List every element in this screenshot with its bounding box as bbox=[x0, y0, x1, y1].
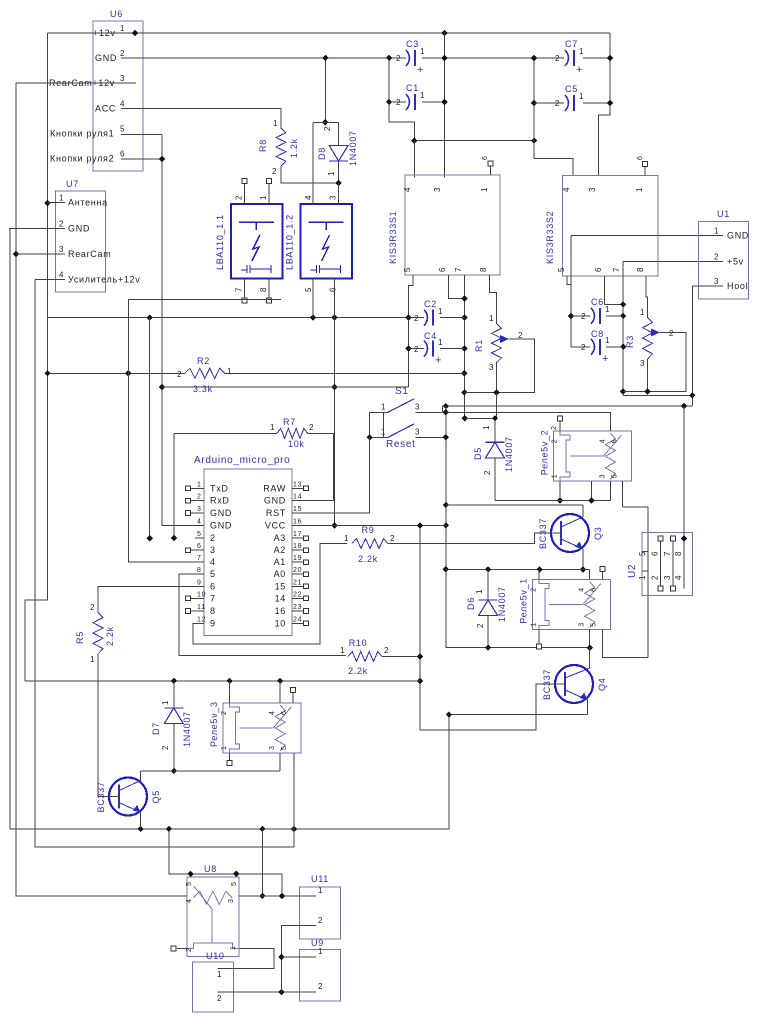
svg-text:10: 10 bbox=[197, 591, 206, 598]
svg-text:2: 2 bbox=[197, 494, 202, 501]
svg-text:R8: R8 bbox=[258, 139, 268, 152]
svg-text:3: 3 bbox=[579, 622, 586, 627]
svg-text:2.2k: 2.2k bbox=[348, 666, 368, 676]
svg-text:2: 2 bbox=[669, 329, 674, 338]
svg-text:7: 7 bbox=[234, 287, 243, 292]
svg-text:2: 2 bbox=[414, 314, 419, 323]
svg-text:4: 4 bbox=[599, 439, 606, 444]
svg-text:1: 1 bbox=[420, 91, 425, 100]
svg-text:5: 5 bbox=[403, 267, 412, 272]
svg-text:2: 2 bbox=[210, 533, 216, 543]
svg-text:3: 3 bbox=[415, 427, 420, 436]
svg-text:Q4: Q4 bbox=[597, 678, 607, 691]
svg-text:C3: C3 bbox=[406, 39, 419, 49]
svg-text:3: 3 bbox=[228, 898, 235, 903]
svg-text:D8: D8 bbox=[317, 147, 327, 160]
svg-text:6: 6 bbox=[120, 150, 125, 159]
svg-text:1: 1 bbox=[635, 187, 644, 192]
svg-text:11: 11 bbox=[197, 604, 206, 611]
svg-text:1: 1 bbox=[475, 589, 484, 594]
svg-text:2: 2 bbox=[651, 575, 660, 580]
svg-text:1: 1 bbox=[259, 195, 268, 200]
svg-text:C8: C8 bbox=[591, 329, 604, 339]
svg-text:4: 4 bbox=[304, 195, 313, 200]
svg-text:1: 1 bbox=[340, 646, 345, 655]
svg-text:9: 9 bbox=[197, 579, 202, 586]
svg-text:R1: R1 bbox=[474, 339, 484, 352]
svg-text:2: 2 bbox=[323, 126, 332, 131]
svg-text:6: 6 bbox=[637, 155, 644, 160]
svg-text:3: 3 bbox=[59, 245, 64, 254]
svg-text:2: 2 bbox=[581, 312, 586, 321]
svg-text:3: 3 bbox=[433, 187, 442, 192]
svg-text:6: 6 bbox=[591, 587, 598, 592]
svg-text:20: 20 bbox=[293, 567, 302, 574]
svg-text:2: 2 bbox=[555, 54, 560, 63]
svg-text:1: 1 bbox=[90, 655, 95, 664]
svg-text:3: 3 bbox=[588, 187, 597, 192]
svg-text:7: 7 bbox=[210, 593, 216, 603]
svg-text:1: 1 bbox=[480, 187, 489, 192]
svg-text:6: 6 bbox=[210, 581, 216, 591]
svg-text:ACC: ACC bbox=[95, 104, 116, 114]
svg-text:2: 2 bbox=[551, 439, 558, 444]
svg-text:3: 3 bbox=[489, 363, 494, 372]
svg-text:C4: C4 bbox=[424, 331, 437, 341]
svg-text:6: 6 bbox=[482, 155, 489, 160]
svg-text:1: 1 bbox=[327, 171, 336, 176]
svg-text:Q3: Q3 bbox=[593, 527, 603, 540]
svg-text:5: 5 bbox=[231, 881, 238, 886]
svg-text:2: 2 bbox=[318, 916, 323, 925]
svg-text:1: 1 bbox=[605, 305, 610, 314]
svg-text:+: + bbox=[435, 355, 442, 367]
svg-text:1N4007: 1N4007 bbox=[182, 711, 192, 747]
svg-text:2.2k: 2.2k bbox=[358, 554, 378, 564]
svg-text:Реле5v_3: Реле5v_3 bbox=[209, 701, 219, 747]
svg-text:4: 4 bbox=[210, 557, 216, 567]
svg-text:15: 15 bbox=[293, 506, 302, 513]
svg-text:2: 2 bbox=[476, 623, 485, 628]
svg-text:U2: U2 bbox=[627, 564, 638, 578]
svg-text:KIS3R33S2: KIS3R33S2 bbox=[545, 211, 555, 264]
svg-text:3: 3 bbox=[120, 74, 125, 83]
svg-text:U6: U6 bbox=[110, 9, 123, 19]
svg-text:2: 2 bbox=[396, 54, 401, 63]
svg-text:1: 1 bbox=[438, 307, 443, 316]
svg-text:D6: D6 bbox=[466, 597, 476, 610]
svg-text:21: 21 bbox=[293, 579, 302, 586]
svg-text:1: 1 bbox=[161, 700, 170, 705]
svg-text:6: 6 bbox=[611, 439, 618, 444]
svg-text:2: 2 bbox=[120, 49, 125, 58]
svg-text:U8: U8 bbox=[204, 864, 217, 874]
svg-text:1: 1 bbox=[318, 886, 323, 895]
svg-text:S1: S1 bbox=[395, 386, 409, 397]
svg-text:5: 5 bbox=[591, 622, 598, 627]
svg-text:R9: R9 bbox=[362, 525, 375, 535]
svg-text:KIS3R33S1: KIS3R33S1 bbox=[388, 211, 398, 264]
svg-text:5: 5 bbox=[611, 474, 618, 479]
svg-text:2: 2 bbox=[217, 994, 222, 1003]
svg-text:RearCam: RearCam bbox=[68, 249, 111, 259]
svg-text:1: 1 bbox=[381, 402, 386, 411]
svg-text:1: 1 bbox=[489, 314, 494, 323]
svg-text:2: 2 bbox=[186, 947, 193, 952]
svg-text:Кнопки руля2: Кнопки руля2 bbox=[50, 154, 114, 164]
svg-text:1: 1 bbox=[270, 423, 275, 432]
svg-text:RxD: RxD bbox=[210, 496, 230, 506]
svg-text:1: 1 bbox=[579, 47, 584, 56]
svg-text:D5: D5 bbox=[473, 447, 483, 460]
svg-text:1: 1 bbox=[59, 194, 64, 203]
svg-text:GND: GND bbox=[210, 521, 232, 531]
svg-text:3: 3 bbox=[269, 745, 276, 750]
svg-text:10k: 10k bbox=[288, 439, 305, 449]
svg-text:4: 4 bbox=[579, 587, 586, 592]
svg-text:8: 8 bbox=[197, 567, 202, 574]
svg-text:3: 3 bbox=[415, 402, 420, 411]
svg-text:GND: GND bbox=[210, 508, 232, 518]
svg-text:3: 3 bbox=[714, 277, 719, 286]
svg-text:TxD: TxD bbox=[210, 483, 229, 493]
svg-text:8: 8 bbox=[210, 606, 216, 616]
svg-text:1: 1 bbox=[579, 92, 584, 101]
svg-text:R7: R7 bbox=[283, 417, 296, 427]
svg-text:+: + bbox=[417, 64, 424, 76]
svg-text:5: 5 bbox=[304, 287, 313, 292]
svg-text:6: 6 bbox=[651, 551, 660, 556]
svg-text:24: 24 bbox=[293, 616, 302, 623]
svg-text:4: 4 bbox=[562, 187, 571, 192]
svg-text:4: 4 bbox=[403, 187, 412, 192]
svg-text:2: 2 bbox=[309, 423, 314, 432]
svg-text:GND: GND bbox=[68, 224, 90, 234]
svg-text:3: 3 bbox=[329, 195, 338, 200]
svg-text:1: 1 bbox=[318, 947, 323, 956]
svg-text:U7: U7 bbox=[66, 179, 79, 189]
svg-text:8: 8 bbox=[636, 267, 645, 272]
svg-text:4: 4 bbox=[186, 898, 193, 903]
svg-text:3.3k: 3.3k bbox=[193, 384, 213, 394]
svg-text:2: 2 bbox=[90, 603, 95, 612]
svg-text:1: 1 bbox=[230, 945, 237, 950]
svg-text:C5: C5 bbox=[565, 84, 578, 94]
svg-text:2.2k: 2.2k bbox=[105, 626, 115, 646]
svg-text:2: 2 bbox=[59, 220, 64, 229]
svg-text:C6: C6 bbox=[591, 297, 604, 307]
svg-text:C1: C1 bbox=[406, 83, 419, 93]
svg-text:1N4007: 1N4007 bbox=[497, 586, 507, 622]
svg-text:1: 1 bbox=[605, 336, 610, 345]
svg-text:1: 1 bbox=[420, 47, 425, 56]
svg-text:18: 18 bbox=[293, 543, 302, 550]
svg-text:19: 19 bbox=[293, 555, 302, 562]
svg-text:10: 10 bbox=[275, 618, 286, 628]
svg-text:LBA110_1.1: LBA110_1.1 bbox=[215, 214, 225, 270]
svg-text:2: 2 bbox=[318, 982, 323, 991]
svg-text:8: 8 bbox=[674, 551, 683, 556]
svg-text:5: 5 bbox=[197, 531, 202, 538]
svg-text:3: 3 bbox=[599, 474, 606, 479]
svg-text:U1: U1 bbox=[717, 209, 730, 219]
svg-text:17: 17 bbox=[293, 531, 302, 538]
svg-text:Reset: Reset bbox=[386, 439, 416, 450]
svg-text:BC337: BC337 bbox=[96, 781, 106, 812]
svg-text:LBA110_1.2: LBA110_1.2 bbox=[285, 214, 295, 270]
svg-text:4: 4 bbox=[674, 575, 683, 580]
svg-text:12: 12 bbox=[197, 616, 206, 623]
svg-text:2: 2 bbox=[177, 370, 182, 379]
svg-text:5: 5 bbox=[210, 569, 216, 579]
svg-text:1: 1 bbox=[217, 970, 222, 979]
svg-text:A3: A3 bbox=[274, 533, 286, 543]
svg-text:C2: C2 bbox=[424, 299, 437, 309]
svg-text:16: 16 bbox=[293, 519, 302, 526]
svg-text:1: 1 bbox=[638, 575, 647, 580]
svg-text:C7: C7 bbox=[565, 39, 578, 49]
svg-text:R5: R5 bbox=[75, 631, 85, 644]
svg-text:2: 2 bbox=[551, 425, 558, 430]
svg-text:6: 6 bbox=[594, 267, 603, 272]
svg-text:1: 1 bbox=[221, 745, 228, 750]
svg-text:22: 22 bbox=[293, 591, 302, 598]
svg-text:RST: RST bbox=[266, 508, 286, 518]
svg-text:3: 3 bbox=[197, 506, 202, 513]
svg-text:1: 1 bbox=[640, 308, 645, 317]
svg-text:Усилитель+12v: Усилитель+12v bbox=[68, 274, 140, 284]
svg-text:+: + bbox=[602, 353, 609, 365]
svg-text:3: 3 bbox=[663, 575, 672, 580]
svg-text:7: 7 bbox=[454, 267, 463, 272]
svg-text:2: 2 bbox=[555, 99, 560, 108]
svg-text:GND: GND bbox=[727, 231, 749, 241]
svg-text:2: 2 bbox=[531, 587, 538, 592]
svg-text:GND: GND bbox=[95, 53, 117, 63]
svg-text:13: 13 bbox=[293, 481, 302, 488]
svg-text:GND: GND bbox=[264, 496, 286, 506]
svg-text:14: 14 bbox=[293, 494, 302, 501]
svg-text:5: 5 bbox=[186, 881, 193, 886]
svg-text:2: 2 bbox=[384, 646, 389, 655]
svg-text:RAW: RAW bbox=[263, 483, 286, 493]
svg-text:Кнопки руля1: Кнопки руля1 bbox=[50, 129, 114, 139]
svg-text:6: 6 bbox=[438, 267, 447, 272]
svg-text:Реле5v_1: Реле5v_1 bbox=[519, 578, 529, 624]
svg-text:D7: D7 bbox=[151, 722, 161, 735]
svg-text:A1: A1 bbox=[274, 557, 286, 567]
svg-text:3: 3 bbox=[640, 359, 645, 368]
svg-text:2: 2 bbox=[272, 167, 277, 176]
svg-text:1: 1 bbox=[120, 24, 125, 33]
svg-text:Arduino_micro_pro: Arduino_micro_pro bbox=[194, 455, 290, 466]
svg-text:1: 1 bbox=[714, 227, 719, 236]
svg-text:A2: A2 bbox=[274, 545, 286, 555]
svg-text:1: 1 bbox=[482, 425, 491, 430]
svg-text:R10: R10 bbox=[349, 638, 368, 648]
svg-text:14: 14 bbox=[275, 593, 286, 603]
svg-text:1.2k: 1.2k bbox=[289, 138, 299, 158]
svg-text:Hool: Hool bbox=[727, 281, 748, 291]
svg-text:U11: U11 bbox=[311, 874, 329, 884]
svg-text:5: 5 bbox=[281, 745, 288, 750]
svg-text:1: 1 bbox=[531, 622, 538, 627]
svg-text:1: 1 bbox=[227, 367, 232, 376]
svg-text:R2: R2 bbox=[197, 356, 210, 366]
svg-text:9: 9 bbox=[210, 618, 216, 628]
svg-text:+: + bbox=[576, 64, 583, 76]
svg-text:2: 2 bbox=[414, 345, 419, 354]
svg-text:4: 4 bbox=[197, 519, 202, 526]
svg-text:5: 5 bbox=[557, 267, 566, 272]
svg-text:7: 7 bbox=[612, 267, 621, 272]
svg-text:Q5: Q5 bbox=[151, 790, 161, 803]
svg-text:1: 1 bbox=[551, 474, 558, 479]
svg-text:U10: U10 bbox=[206, 951, 225, 961]
svg-text:2: 2 bbox=[396, 98, 401, 107]
svg-text:2: 2 bbox=[581, 343, 586, 352]
svg-text:3: 3 bbox=[210, 545, 216, 555]
svg-text:6: 6 bbox=[329, 287, 338, 292]
svg-text:4: 4 bbox=[269, 710, 276, 715]
svg-text:1N4007: 1N4007 bbox=[348, 130, 358, 166]
svg-text:7: 7 bbox=[663, 551, 672, 556]
svg-text:6: 6 bbox=[197, 543, 202, 550]
svg-text:4: 4 bbox=[120, 100, 125, 109]
svg-text:2: 2 bbox=[483, 470, 492, 475]
svg-text:8: 8 bbox=[259, 287, 268, 292]
svg-text:2: 2 bbox=[234, 195, 243, 200]
svg-text:1N4007: 1N4007 bbox=[504, 436, 514, 472]
svg-text:2: 2 bbox=[221, 710, 228, 715]
svg-text:23: 23 bbox=[293, 604, 302, 611]
svg-text:1: 1 bbox=[344, 534, 349, 543]
svg-text:Антенна: Антенна bbox=[68, 198, 108, 208]
svg-text:R3: R3 bbox=[625, 335, 635, 348]
svg-text:1: 1 bbox=[197, 481, 202, 488]
svg-text:1: 1 bbox=[273, 119, 278, 128]
svg-text:16: 16 bbox=[275, 606, 286, 616]
svg-text:5: 5 bbox=[120, 125, 125, 134]
svg-text:15: 15 bbox=[275, 581, 286, 591]
svg-text:+5v: +5v bbox=[727, 256, 744, 266]
svg-text:1: 1 bbox=[438, 338, 443, 347]
svg-text:Реле5v_2: Реле5v_2 bbox=[539, 430, 549, 476]
svg-text:2: 2 bbox=[390, 534, 395, 543]
svg-text:4: 4 bbox=[59, 270, 64, 279]
svg-text:6: 6 bbox=[281, 710, 288, 715]
svg-text:2: 2 bbox=[714, 252, 719, 261]
svg-text:2: 2 bbox=[161, 745, 170, 750]
svg-text:8: 8 bbox=[479, 267, 488, 272]
svg-text:7: 7 bbox=[197, 555, 202, 562]
svg-text:A0: A0 bbox=[274, 569, 286, 579]
svg-text:VCC: VCC bbox=[265, 521, 286, 531]
